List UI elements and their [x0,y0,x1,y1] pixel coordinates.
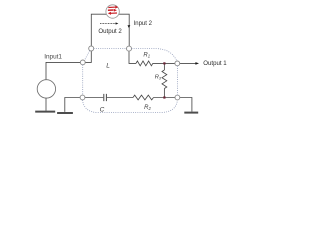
svg-text:Input 2: Input 2 [134,21,153,27]
svg-text:Output 1: Output 1 [203,60,227,67]
svg-text:R1: R1 [143,53,150,59]
svg-text:R2: R2 [144,105,151,111]
svg-text:C: C [100,107,105,114]
svg-text:Output 2: Output 2 [98,28,122,35]
svg-text:Input1: Input1 [44,53,62,60]
svg-text:L: L [106,63,110,70]
svg-text:R3: R3 [155,74,162,80]
